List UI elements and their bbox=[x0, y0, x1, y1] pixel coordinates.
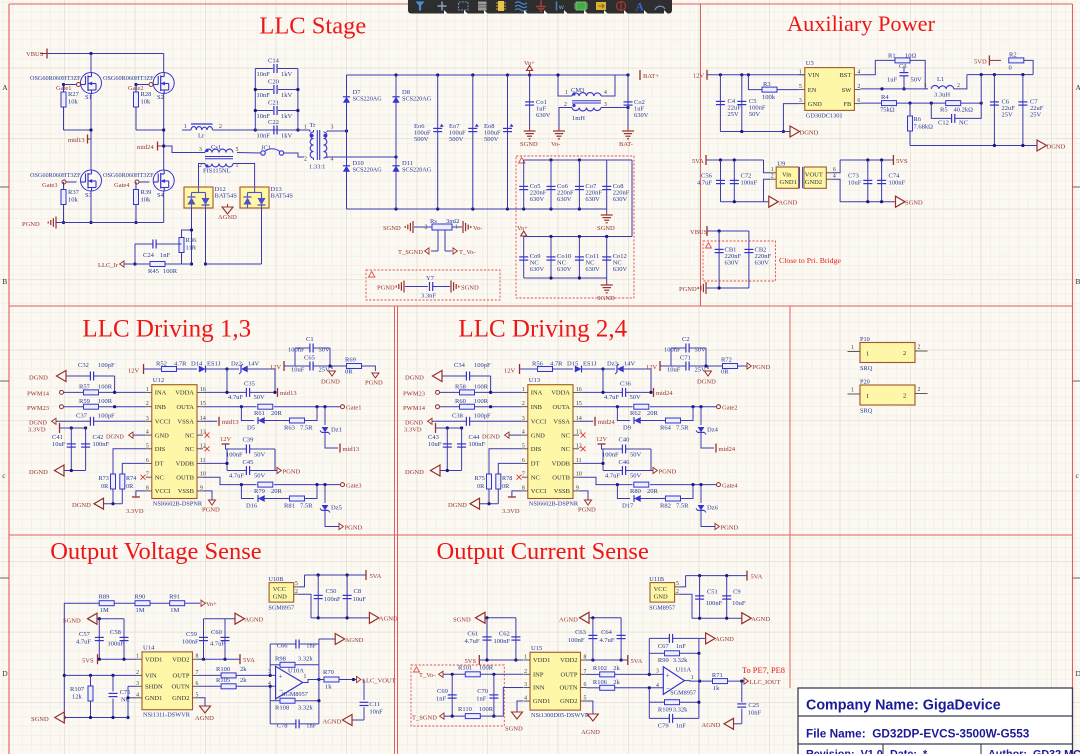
svg-text:10uF: 10uF bbox=[667, 367, 681, 374]
IC U10B bbox=[269, 583, 294, 603]
svg-text:3.32k: 3.32k bbox=[673, 706, 688, 713]
svg-text:500V: 500V bbox=[449, 136, 464, 143]
toolbar icon arc bbox=[655, 6, 665, 10]
svg-text:mid24: mid24 bbox=[719, 446, 736, 453]
svg-text:C74: C74 bbox=[889, 173, 901, 180]
diode pair D12 BAT54S bbox=[184, 187, 213, 208]
svg-text:DGND: DGND bbox=[482, 433, 500, 440]
port AGND u9 bbox=[769, 196, 779, 207]
svg-text:C72: C72 bbox=[741, 173, 752, 180]
svg-text:Vo-: Vo- bbox=[551, 141, 560, 148]
svg-text:0R: 0R bbox=[345, 369, 353, 376]
svg-text:NC: NC bbox=[531, 474, 540, 481]
svg-text:OUTP: OUTP bbox=[173, 673, 190, 680]
svg-text:C35: C35 bbox=[244, 381, 255, 388]
svg-text:PGND: PGND bbox=[365, 380, 383, 387]
svg-text:630V: 630V bbox=[634, 112, 649, 119]
svg-text:OUTA: OUTA bbox=[176, 404, 194, 411]
svg-text:VBUS: VBUS bbox=[26, 51, 44, 58]
filter caps bottom rail bbox=[524, 277, 607, 279]
svg-text:1: 1 bbox=[691, 675, 694, 681]
diode D16 bbox=[241, 485, 254, 499]
svg-text:50V: 50V bbox=[630, 452, 642, 459]
feedback C67 bbox=[648, 638, 650, 674]
svg-text:B: B bbox=[2, 277, 7, 286]
resistor R39 bbox=[134, 190, 139, 205]
svg-text:1: 1 bbox=[924, 83, 927, 89]
inductor Lr bbox=[182, 129, 191, 131]
svg-text:6: 6 bbox=[833, 167, 836, 173]
svg-text:4: 4 bbox=[522, 430, 525, 436]
svg-text:LLC_VOUT: LLC_VOUT bbox=[362, 677, 396, 684]
resistor R64 7.5R bbox=[639, 420, 666, 422]
wire VIN row bbox=[64, 674, 136, 676]
ground SGND U15 bbox=[517, 701, 524, 712]
rectifier bottom rail bbox=[347, 208, 607, 210]
svg-text:INB: INB bbox=[155, 404, 167, 411]
wire gate1 to R27 node bbox=[64, 84, 77, 86]
svg-text:mid24: mid24 bbox=[137, 144, 154, 151]
svg-text:R101: R101 bbox=[458, 664, 472, 671]
port SGND in Y7 box bbox=[450, 281, 452, 293]
svg-text:SCS220AG: SCS220AG bbox=[402, 96, 432, 103]
svg-text:GD30DC1301: GD30DC1301 bbox=[806, 112, 843, 119]
diode D8 SCS220AG bbox=[395, 75, 397, 209]
svg-text:10uF: 10uF bbox=[52, 441, 66, 448]
svg-text:10nF: 10nF bbox=[257, 92, 271, 99]
capacitor C51 bbox=[699, 576, 701, 619]
feedback R98 bbox=[280, 662, 295, 667]
svg-text:8: 8 bbox=[522, 485, 525, 491]
wire VDD2 row bbox=[199, 658, 241, 660]
resistor R100 bbox=[221, 673, 236, 678]
svg-text:100nF: 100nF bbox=[93, 441, 110, 448]
svg-text:R71: R71 bbox=[712, 672, 723, 679]
svg-text:4: 4 bbox=[604, 90, 607, 96]
svg-text:OSG60R060HT3ZF: OSG60R060HT3ZF bbox=[30, 75, 81, 82]
svg-text:GND: GND bbox=[531, 432, 545, 439]
rail AGND U10B bbox=[311, 617, 369, 619]
svg-text:C3: C3 bbox=[899, 63, 907, 70]
svg-text:2: 2 bbox=[857, 84, 860, 90]
diode D10 SCS220AG bbox=[346, 131, 348, 209]
svg-text:SGND: SGND bbox=[905, 200, 923, 207]
svg-text:2: 2 bbox=[918, 387, 921, 393]
svg-text:BAT54S: BAT54S bbox=[271, 193, 294, 200]
svg-text:10uF: 10uF bbox=[732, 600, 746, 607]
svg-text:Author: GD32 MCU: Author: GD32 MCU bbox=[988, 749, 1080, 754]
port AGND cap group bbox=[235, 613, 245, 624]
svg-text:630V: 630V bbox=[725, 260, 740, 267]
svg-text:100R: 100R bbox=[479, 706, 494, 713]
svg-text:630V: 630V bbox=[755, 260, 770, 267]
port SGND u9 bbox=[896, 196, 906, 207]
svg-text:R37: R37 bbox=[68, 189, 80, 196]
svg-text:C8: C8 bbox=[354, 588, 362, 595]
capacitor C25 bbox=[741, 681, 743, 702]
svg-text:2: 2 bbox=[771, 174, 774, 180]
svg-text:DGND: DGND bbox=[697, 379, 716, 386]
wire SW row bbox=[860, 88, 928, 90]
svg-text:7: 7 bbox=[146, 472, 149, 478]
port Gate3 bbox=[341, 483, 345, 487]
svg-text:C50: C50 bbox=[326, 588, 337, 595]
power bar mid24 at VDDA bbox=[653, 388, 655, 397]
capacitor C5 bbox=[741, 75, 743, 132]
svg-text:Dz2: Dz2 bbox=[231, 361, 242, 368]
svg-text:NC: NC bbox=[155, 474, 164, 481]
toolbar icon crosshair bbox=[438, 2, 447, 11]
svg-text:SGND: SGND bbox=[461, 285, 479, 292]
port DGND row1 bbox=[783, 131, 790, 133]
section divider y535 bbox=[9, 534, 1073, 536]
capacitor Co6 bbox=[550, 160, 552, 209]
svg-text:3: 3 bbox=[524, 682, 527, 688]
wire Lr to cap stack bbox=[213, 129, 305, 131]
capacitor C56 bbox=[720, 160, 722, 202]
svg-text:DGND: DGND bbox=[1047, 143, 1066, 150]
svg-text:100R: 100R bbox=[474, 384, 489, 391]
svg-text:R102: R102 bbox=[593, 665, 607, 672]
svg-text:C1: C1 bbox=[306, 336, 314, 343]
capacitor Co1 bbox=[529, 75, 531, 128]
svg-text:0R: 0R bbox=[502, 483, 510, 490]
svg-text:U14: U14 bbox=[143, 644, 155, 651]
svg-text:3.3VD: 3.3VD bbox=[404, 427, 422, 434]
svg-text:Vo+: Vo+ bbox=[206, 601, 217, 608]
svg-text:Gate4: Gate4 bbox=[114, 182, 130, 189]
svg-text:T_SGND: T_SGND bbox=[398, 249, 423, 256]
svg-text:C67: C67 bbox=[658, 643, 670, 650]
wire opamp out isense bbox=[684, 680, 712, 683]
svg-text:1kV: 1kV bbox=[281, 71, 293, 78]
svg-text:14V: 14V bbox=[624, 361, 636, 368]
svg-text:5: 5 bbox=[295, 581, 298, 587]
port Gate4 bbox=[717, 483, 721, 487]
svg-text:630V: 630V bbox=[557, 266, 572, 273]
svg-text:C39: C39 bbox=[243, 437, 254, 444]
svg-text:4.7uF: 4.7uF bbox=[228, 394, 243, 401]
wire to INN bbox=[494, 688, 524, 717]
power bar mid13 at VSSA bbox=[203, 420, 217, 422]
svg-text:C57: C57 bbox=[79, 631, 91, 638]
wire CM3 pin1 bbox=[558, 75, 572, 96]
capacitor Co5 bbox=[523, 160, 525, 209]
svg-text:C61: C61 bbox=[467, 631, 478, 638]
svg-text:3.3VD: 3.3VD bbox=[126, 508, 144, 515]
zener Dz6 bbox=[700, 485, 702, 503]
port LLC_VOUT bbox=[357, 676, 361, 682]
svg-text:INB: INB bbox=[531, 404, 543, 411]
capacitor CB2 bbox=[748, 231, 750, 288]
svg-text:50V: 50V bbox=[630, 394, 642, 401]
svg-text:NSI6602B-DSPNR: NSI6602B-DSPNR bbox=[529, 501, 579, 508]
port Gate2 bbox=[717, 405, 721, 409]
svg-text:4.7uF: 4.7uF bbox=[229, 473, 244, 480]
svg-text:10nF: 10nF bbox=[257, 71, 271, 78]
svg-text:C70: C70 bbox=[477, 688, 488, 695]
resistor R63 7.5R bbox=[263, 420, 290, 422]
svg-text:U11A: U11A bbox=[676, 667, 692, 674]
svg-text:C25: C25 bbox=[748, 702, 759, 709]
svg-text:1M: 1M bbox=[100, 607, 109, 614]
port AGND feedback isense bbox=[699, 637, 706, 639]
svg-text:mid24: mid24 bbox=[598, 419, 615, 426]
svg-text:DGND: DGND bbox=[29, 375, 48, 382]
wire GND2 to AGND bbox=[199, 698, 206, 706]
resistor R62 20R bbox=[634, 404, 649, 409]
svg-text:C24: C24 bbox=[143, 252, 155, 259]
zener Dz4 bbox=[700, 407, 702, 425]
svg-text:100nF: 100nF bbox=[182, 639, 199, 646]
wire OUTB row bbox=[579, 477, 633, 484]
capacitor Co12 bbox=[606, 237, 608, 279]
svg-text:EN: EN bbox=[808, 87, 817, 94]
dashed box current taps bbox=[411, 665, 504, 726]
svg-text:PWM14: PWM14 bbox=[403, 405, 426, 412]
wire OUTP row isense bbox=[587, 673, 600, 675]
wire S4 source bbox=[163, 191, 165, 223]
capacitor C70 bbox=[493, 674, 495, 716]
port AGND C11 bbox=[352, 719, 364, 721]
toolbar icon filter bbox=[416, 2, 425, 11]
svg-text:NSi1311-DSWVR: NSi1311-DSWVR bbox=[143, 712, 191, 719]
svg-text:SGM8957: SGM8957 bbox=[649, 605, 675, 612]
svg-text:DGND: DGND bbox=[405, 419, 423, 426]
svg-text:DGND: DGND bbox=[800, 129, 819, 136]
svg-text:OUTN: OUTN bbox=[171, 684, 189, 691]
svg-text:3.3VD: 3.3VD bbox=[502, 508, 520, 515]
svg-text:VCCI: VCCI bbox=[531, 488, 547, 495]
svg-text:100nF: 100nF bbox=[568, 637, 585, 644]
svg-text:C46: C46 bbox=[619, 459, 631, 466]
svg-text:12k: 12k bbox=[72, 694, 83, 701]
capacitor Co10 bbox=[550, 237, 552, 279]
svg-text:Dz5: Dz5 bbox=[331, 505, 342, 512]
wire to VDDA bbox=[602, 369, 604, 392]
diode D11 SCS220AG bbox=[392, 166, 399, 172]
svg-text:Y7: Y7 bbox=[426, 275, 435, 282]
svg-text:SGM8957: SGM8957 bbox=[268, 605, 294, 612]
toolbar icon rectangle bbox=[459, 2, 469, 10]
toolbar icon component bbox=[498, 1, 504, 11]
svg-text:100nF: 100nF bbox=[741, 180, 758, 187]
svg-text:LLC Driving 2,4: LLC Driving 2,4 bbox=[458, 316, 627, 343]
capacitor C41 bbox=[70, 428, 72, 471]
svg-text:1: 1 bbox=[799, 69, 802, 75]
svg-text:L1: L1 bbox=[937, 76, 944, 83]
svg-text:C41: C41 bbox=[52, 434, 63, 441]
svg-text:DGND: DGND bbox=[405, 469, 424, 476]
svg-text:3: 3 bbox=[656, 668, 659, 674]
svg-text:Vin: Vin bbox=[782, 172, 792, 179]
transistor S3 bbox=[81, 170, 102, 191]
svg-text:4: 4 bbox=[136, 692, 139, 698]
power bar mid24 at VSSA bbox=[579, 420, 593, 422]
svg-text:DIS: DIS bbox=[155, 446, 166, 453]
wire S1 source column bbox=[90, 94, 92, 171]
svg-text:R107: R107 bbox=[70, 686, 85, 693]
svg-text:DGND: DGND bbox=[29, 419, 47, 426]
svg-text:4: 4 bbox=[146, 430, 149, 436]
svg-text:VCCI: VCCI bbox=[531, 419, 547, 426]
port LLC_IOUT bbox=[744, 678, 748, 684]
svg-text:LLC Stage: LLC Stage bbox=[259, 13, 366, 40]
wire L1 to 5VD rail bbox=[954, 75, 967, 89]
svg-text:3.32k: 3.32k bbox=[298, 655, 313, 662]
wire CM3 pin2 to Vo- bbox=[559, 108, 572, 129]
svg-text:20R: 20R bbox=[271, 488, 283, 495]
svg-text:OUTN: OUTN bbox=[559, 685, 577, 692]
svg-text:2k: 2k bbox=[613, 679, 620, 686]
svg-text:BAT+: BAT+ bbox=[643, 73, 659, 80]
IC U13 NSI6602B bbox=[528, 385, 573, 499]
transistor S2 bbox=[153, 73, 174, 94]
wire Cs1 pin1 to D13 bbox=[233, 164, 255, 188]
svg-text:SRQ: SRQ bbox=[860, 408, 873, 415]
wire OUTB row bbox=[203, 477, 257, 484]
svg-text:C69: C69 bbox=[437, 688, 448, 695]
svg-text:1: 1 bbox=[184, 124, 187, 130]
capacitor C74 bbox=[881, 160, 883, 202]
svg-text:R73: R73 bbox=[99, 475, 109, 482]
resistor R82 7.5R bbox=[639, 498, 666, 500]
svg-text:10uF: 10uF bbox=[428, 441, 442, 448]
svg-text:w: w bbox=[558, 4, 564, 11]
svg-text:50V: 50V bbox=[749, 111, 761, 118]
svg-text:R108: R108 bbox=[275, 704, 289, 711]
svg-text:C75: C75 bbox=[120, 689, 131, 696]
svg-text:4.7uF: 4.7uF bbox=[605, 473, 620, 480]
svg-text:2k: 2k bbox=[613, 665, 620, 672]
svg-text:VSSB: VSSB bbox=[554, 488, 571, 495]
capacitor Eo7 bbox=[472, 75, 474, 209]
svg-text:R82: R82 bbox=[660, 503, 671, 510]
svg-text:AGND: AGND bbox=[195, 715, 214, 722]
wire S3 source bbox=[90, 191, 92, 223]
svg-text:R70: R70 bbox=[323, 669, 334, 676]
svg-text:100nF: 100nF bbox=[494, 638, 511, 645]
margin zone ticks bbox=[0, 186, 9, 188]
svg-text:3: 3 bbox=[146, 416, 149, 422]
port AGND C25 bbox=[734, 723, 742, 725]
svg-text:AGND: AGND bbox=[245, 617, 264, 624]
resistor R101 bbox=[465, 672, 480, 677]
capacitor C72 bbox=[733, 160, 735, 202]
svg-text:U9: U9 bbox=[777, 161, 786, 168]
svg-text:PGND: PGND bbox=[721, 524, 739, 531]
svg-text:NSI6602B-DSPNR: NSI6602B-DSPNR bbox=[153, 501, 203, 508]
svg-text:7.5R: 7.5R bbox=[676, 503, 689, 510]
svg-text:25V: 25V bbox=[695, 367, 707, 374]
svg-text:12V: 12V bbox=[646, 364, 658, 371]
svg-text:3: 3 bbox=[522, 416, 525, 422]
svg-text:630V: 630V bbox=[557, 196, 572, 203]
svg-text:16: 16 bbox=[200, 387, 206, 393]
svg-text:6: 6 bbox=[146, 458, 149, 464]
resistor R106 bbox=[600, 685, 615, 690]
filter caps lower rail bbox=[524, 236, 632, 238]
resistor R89 bbox=[99, 601, 114, 606]
svg-text:DT: DT bbox=[155, 461, 164, 468]
svg-text:R36: R36 bbox=[186, 237, 198, 244]
svg-text:U10B: U10B bbox=[268, 576, 283, 583]
wire OUTP row bbox=[199, 674, 222, 676]
svg-text:C20: C20 bbox=[268, 79, 279, 86]
svg-text:SGND: SGND bbox=[31, 716, 49, 723]
svg-text:4.7uF: 4.7uF bbox=[465, 638, 480, 645]
svg-text:C42: C42 bbox=[93, 434, 104, 441]
bottom rail vsense bbox=[64, 717, 128, 719]
svg-text:SGND: SGND bbox=[597, 225, 615, 232]
diode D7 SCS220AG bbox=[346, 75, 348, 131]
diode D9 bbox=[617, 407, 630, 421]
svg-text:R100: R100 bbox=[216, 666, 230, 673]
capacitor C6 bbox=[993, 75, 995, 146]
resistor R28 bbox=[134, 92, 139, 107]
svg-text:OSG60R060HT3ZF: OSG60R060HT3ZF bbox=[103, 75, 154, 82]
svg-text:R78: R78 bbox=[502, 475, 512, 482]
svg-text:10uF: 10uF bbox=[353, 596, 367, 603]
svg-text:Auxiliary Power: Auxiliary Power bbox=[787, 11, 936, 36]
svg-text:PWM23: PWM23 bbox=[27, 405, 49, 412]
wire S1 drain bbox=[90, 54, 92, 73]
IC U14 NSi1311 bbox=[142, 652, 193, 710]
svg-text:1k: 1k bbox=[325, 684, 332, 691]
capacitor C43 bbox=[446, 428, 448, 471]
capacitor C60 bbox=[224, 619, 226, 660]
svg-text:SHDN: SHDN bbox=[145, 684, 163, 691]
floating toolbar bbox=[408, 0, 672, 14]
svg-text:LLC_Ir: LLC_Ir bbox=[98, 262, 119, 269]
section divider y306 bbox=[9, 305, 1073, 307]
power bar mid13 at VDDA bbox=[277, 388, 279, 397]
svg-text:D: D bbox=[1076, 669, 1080, 678]
svg-text:OSG60R060HT3ZF: OSG60R060HT3ZF bbox=[30, 172, 81, 179]
svg-text:C38: C38 bbox=[452, 413, 463, 420]
svg-text:100nF: 100nF bbox=[602, 452, 619, 459]
svg-text:VIN: VIN bbox=[145, 673, 157, 680]
svg-text:LLC Driving 1,3: LLC Driving 1,3 bbox=[82, 316, 251, 343]
svg-text:10k: 10k bbox=[141, 197, 152, 204]
svg-text:0R: 0R bbox=[721, 369, 729, 376]
resistor R73 bbox=[111, 474, 116, 489]
svg-text:A: A bbox=[1076, 83, 1080, 92]
svg-text:12V: 12V bbox=[128, 368, 140, 375]
wire GND pin to DGND bbox=[783, 104, 798, 132]
svg-text:2: 2 bbox=[522, 401, 525, 407]
svg-text:1: 1 bbox=[522, 387, 525, 393]
svg-text:100pF: 100pF bbox=[98, 413, 115, 420]
svg-text:Company Name: GigaDevice: Company Name: GigaDevice bbox=[806, 698, 1001, 714]
wire Cs1 pin3 to mid24 node bbox=[164, 146, 205, 153]
svg-text:ES1J: ES1J bbox=[207, 361, 221, 368]
capacitor C24 bbox=[152, 240, 154, 249]
svg-text:50V: 50V bbox=[254, 394, 266, 401]
wire VDDB bbox=[203, 462, 227, 464]
svg-text:7.68kΩ: 7.68kΩ bbox=[914, 124, 934, 131]
svg-text:50V: 50V bbox=[254, 473, 266, 480]
svg-text:100pF: 100pF bbox=[98, 362, 115, 369]
wire to VDDA bbox=[226, 369, 228, 392]
svg-text:6: 6 bbox=[522, 458, 525, 464]
svg-text:7: 7 bbox=[522, 472, 525, 478]
svg-text:75kΩ: 75kΩ bbox=[880, 107, 895, 114]
svg-text:R90: R90 bbox=[134, 594, 145, 601]
resistor R27 bbox=[61, 92, 66, 107]
svg-text:2: 2 bbox=[957, 83, 960, 89]
resistor R71 bbox=[713, 679, 728, 684]
